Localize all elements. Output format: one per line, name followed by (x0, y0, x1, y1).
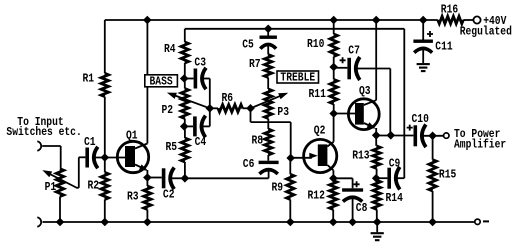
resistor R12 (332, 178, 334, 180)
svg-text:R12: R12 (308, 189, 325, 203)
svg-text:R15: R15 (439, 168, 456, 182)
svg-text:R13: R13 (352, 148, 369, 162)
capacitor C5 (267, 29, 269, 36)
wire Q2 base (291, 157, 312, 159)
node output terminal (444, 133, 449, 138)
ground symbol main (376, 222, 378, 232)
node P3 wiper junction (246, 104, 255, 113)
P2 wiper arrow (167, 93, 177, 99)
capacitor C9 (376, 177, 387, 179)
resistor R10 (333, 20, 335, 34)
svg-text:C1: C1 (84, 135, 96, 149)
svg-text:R8: R8 (252, 134, 264, 148)
svg-text:R3: R3 (127, 190, 139, 204)
wire P3 bottom loop (250, 108, 252, 122)
svg-text:BASS: BASS (150, 74, 173, 88)
svg-text:R9: R9 (272, 181, 284, 195)
transistor Q2 (304, 139, 337, 172)
capacitor C4 (184, 125, 193, 127)
node R2 bottom (101, 218, 110, 227)
node R10 rail (329, 16, 338, 25)
node BASS top (180, 74, 189, 83)
capacitor C10 (414, 125, 418, 146)
node Q3 base (329, 109, 338, 118)
capacitor C7 (334, 67, 348, 69)
node output junction (428, 132, 437, 141)
P3 wiper arrow (278, 93, 288, 100)
node Q2 base (286, 154, 295, 163)
node tone network bottom (181, 174, 190, 183)
node C5 top (264, 25, 273, 34)
resistor R6 (210, 107, 218, 109)
node C4 junction (180, 122, 189, 131)
node R14 bottom ground (373, 218, 382, 227)
transistor Q3 (348, 99, 379, 130)
capacitor C11 (422, 20, 424, 40)
svg-text:P2: P2 (162, 103, 174, 117)
capacitor C1 (85, 148, 89, 168)
resistor R9 (289, 158, 291, 174)
resistor R13 (375, 135, 377, 146)
node Q1 emitter (143, 173, 152, 182)
resistor R1 (104, 20, 106, 73)
node P2 wiper junction (206, 104, 215, 113)
node P1 bottom (56, 218, 65, 227)
svg-text:C7: C7 (348, 43, 360, 57)
svg-text:R5: R5 (166, 140, 178, 154)
resistor R7 (265, 55, 272, 78)
node input terminal upper (37, 141, 41, 151)
resistor R3 (146, 178, 148, 187)
wire ground rail (43, 221, 475, 223)
node R3 bottom (143, 218, 152, 227)
svg-text:TREBLE: TREBLE (280, 71, 315, 85)
node R13 R14 junction (372, 174, 381, 183)
label box BASS (145, 75, 178, 87)
wire P2 wiper (171, 94, 210, 108)
svg-text:R6: R6 (222, 91, 234, 105)
node R9 bottom (286, 218, 295, 227)
svg-text:C5: C5 (242, 37, 254, 51)
svg-text:Switches etc.: Switches etc. (6, 125, 81, 139)
potentiometer P3 (265, 89, 272, 119)
svg-text:P3: P3 (277, 105, 289, 119)
wire P3 wiper (251, 94, 285, 108)
node +40V terminal (473, 16, 480, 23)
svg-text:Q2: Q2 (314, 124, 326, 138)
svg-text:P1: P1 (45, 180, 57, 194)
node C7 junction (329, 63, 338, 72)
svg-text:R1: R1 (83, 72, 95, 86)
svg-text:Amplifier: Amplifier (454, 138, 506, 152)
node Q2 emitter (329, 174, 338, 183)
node Q3 collector rail (372, 16, 381, 25)
svg-text:R14: R14 (386, 191, 403, 205)
ground symbol C11 (417, 63, 430, 65)
node C11 rail (419, 16, 428, 25)
node R15 bottom (428, 218, 437, 227)
transistor Q1 (117, 141, 148, 172)
resistor R4 (184, 29, 186, 42)
resistor R8 (265, 129, 272, 155)
svg-text:R11: R11 (309, 87, 326, 101)
wire Q3 base (334, 113, 355, 115)
svg-text:C11: C11 (435, 40, 452, 54)
wire emitter to C10 (376, 135, 413, 137)
svg-text:C10: C10 (412, 112, 429, 126)
resistor R11 (333, 67, 335, 79)
node ground terminal (475, 219, 480, 224)
svg-text:C6: C6 (243, 157, 255, 171)
node Q3 emitter (372, 131, 381, 140)
wire C1 to Q1 base (94, 157, 126, 159)
resistor R5 (184, 126, 186, 138)
resistor R16 (438, 16, 464, 23)
capacitor C2 (147, 177, 161, 179)
node C7 return junction (387, 131, 396, 140)
svg-text:Q1: Q1 (126, 128, 138, 142)
label box TREBLE (277, 71, 319, 83)
svg-text:Regulated: Regulated (460, 24, 512, 38)
wire input to P1 (42, 145, 61, 147)
svg-text:R16: R16 (441, 2, 458, 16)
potentiometer P1 (56, 169, 63, 197)
node Q1 base (101, 153, 110, 162)
svg-text:C3: C3 (194, 56, 206, 70)
node input terminal lower (37, 217, 41, 227)
svg-text:Q3: Q3 (359, 84, 371, 98)
svg-text:R7: R7 (249, 57, 261, 71)
resistor R15 (432, 136, 434, 160)
svg-text:C2: C2 (163, 188, 175, 202)
node Q1 collector rail (143, 16, 152, 25)
svg-text:C4: C4 (195, 135, 207, 149)
node R12 bottom (329, 218, 338, 227)
wire inner rail (tone network top) (185, 28, 404, 30)
svg-text:R4: R4 (164, 42, 176, 56)
wire main +40V rail (105, 19, 438, 21)
potentiometer P2 (184, 79, 186, 89)
capacitor C6 (259, 161, 279, 164)
node C8 bottom (348, 218, 357, 227)
capacitor C8 (333, 177, 352, 179)
P1 wiper arrow (42, 170, 52, 177)
wire inner rail drop to C9 (403, 29, 405, 178)
svg-text:R10: R10 (307, 37, 324, 51)
resistor R2 (104, 158, 106, 173)
wire P1 wiper (46, 172, 78, 188)
resistor R14 (373, 180, 380, 209)
capacitor C3 (184, 78, 193, 80)
svg-text:C8: C8 (356, 201, 368, 215)
svg-text:R2: R2 (88, 178, 100, 192)
svg-text:C9: C9 (389, 157, 401, 171)
